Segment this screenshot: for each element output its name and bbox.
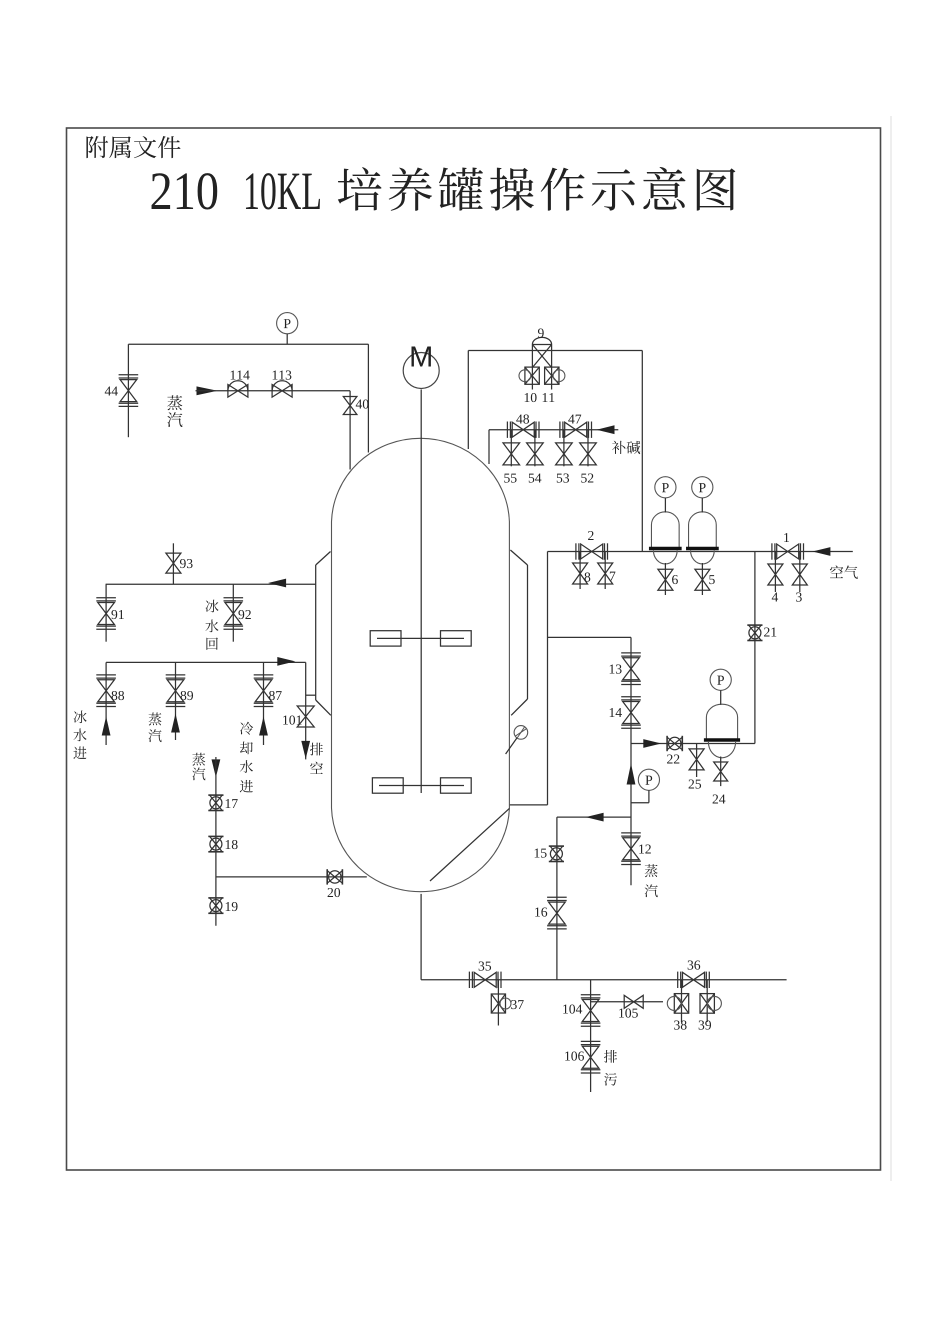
flow arrow: toward valve 15 branch [586, 813, 604, 822]
valve 9 body (cross between risers) [532, 337, 551, 389]
pipe: valve 92 stub [232, 584, 234, 642]
pressure gauge P (air filter F2) [692, 477, 713, 513]
valve 114 [228, 381, 248, 397]
valve 38 [667, 994, 688, 1014]
label 19 [226, 902, 238, 911]
valve 105 [624, 995, 643, 1008]
pipe: tank bottom outlet drop [420, 894, 422, 980]
pipe: sterile air header [548, 551, 853, 553]
label 88 [112, 691, 125, 700]
label 2 [588, 531, 593, 540]
label: 排污 (blow-down) [604, 1050, 617, 1086]
tank T1 10KL culture vessel shell [332, 438, 510, 891]
valve 37 [491, 994, 511, 1013]
flow arrow: steam inlet (top left) [197, 386, 218, 395]
pipe: valve 52 stub [587, 430, 589, 467]
label 93 [180, 559, 193, 568]
valve 40 [343, 397, 357, 415]
pipe: valve 7 stub [604, 552, 606, 590]
valve 3 [792, 564, 807, 585]
label 14 [610, 708, 622, 717]
label: 冰水进 (ice water in) [73, 710, 86, 759]
valve 44 [119, 375, 139, 407]
valve 47 [560, 422, 592, 438]
valve 25 [689, 749, 704, 770]
label 48 [516, 414, 529, 423]
label 9 [538, 328, 544, 337]
pipe: valve 40 drop to tank dome [349, 391, 351, 470]
flow arrow: air inlet [812, 547, 830, 556]
flow arrow: vent down (101) [301, 741, 310, 759]
pressure gauge P (top left) [277, 313, 298, 345]
pipe: valve 93 stub [172, 543, 174, 584]
title text: 210 10KL [152, 173, 320, 209]
pipe: exhaust riser x=754.9 [754, 552, 756, 744]
label 101 [283, 715, 301, 724]
valve 55 [503, 443, 520, 465]
pipe: valve 4 stub [774, 552, 776, 593]
valve 101 [297, 706, 314, 727]
pipe: drain riser x=590.6 [590, 980, 592, 1092]
pipe: steam line with valves 114/113 [196, 390, 351, 392]
pressure gauge P (harvest riser) [631, 769, 660, 803]
label 47 [568, 415, 581, 424]
label: 蒸汽 (steam, top left) [167, 395, 182, 427]
pipe: air header to bottom-side nozzle [510, 804, 548, 806]
valve 36 [678, 972, 710, 988]
cooling jacket right [510, 550, 527, 715]
flow arrow: to sample filter [643, 739, 661, 748]
label 15 [535, 849, 547, 858]
pipe: valve 39 stub [706, 980, 708, 1022]
valve 22 [667, 736, 682, 751]
pipe: vent line drop to air line [641, 351, 643, 552]
valve 5 [695, 569, 710, 590]
valve 53 [556, 443, 573, 465]
label 36 [688, 960, 701, 969]
motor M (agitator drive) [403, 347, 439, 389]
air filter F1 [649, 512, 682, 564]
flow arrow: chilled water return [268, 579, 286, 588]
valve 1 [772, 543, 804, 559]
pipe: valve 6 stub [664, 563, 666, 595]
valve 52 [580, 443, 597, 465]
flow arrow: utility header to jacket [277, 657, 295, 666]
drain dip line inside bottom head [430, 808, 509, 881]
pipe: harvest riser x=631 [630, 637, 632, 885]
title text: 培养罐操作示意图 [338, 167, 736, 211]
impeller upper [370, 631, 471, 646]
label 38 [674, 1020, 686, 1029]
label 11 [543, 393, 555, 402]
pipe: vent line across dome [468, 350, 642, 352]
label: 排空 (vent) [310, 743, 323, 774]
label 4 [772, 593, 778, 602]
label 52 [581, 473, 593, 482]
valve 12 [621, 833, 641, 865]
valve 21 [747, 625, 762, 640]
valve 18 (steam trap) [208, 836, 223, 851]
valve 13 [621, 653, 641, 685]
sample filter F3 [704, 704, 740, 758]
valve 92 [224, 598, 244, 630]
air filter F2 [686, 512, 719, 564]
label: 蒸汽 (steam, trap line) [192, 753, 205, 781]
pipe: valve 88 stub [105, 662, 107, 745]
pipe: valve 53 stub [563, 430, 565, 467]
pipe: valve 24 stub [720, 757, 722, 787]
valve 106 [581, 1041, 601, 1073]
flow arrow: cooling water in [259, 717, 268, 736]
label 44 [105, 387, 118, 396]
flow arrow: steam in (89) [171, 714, 180, 733]
label 53 [557, 473, 569, 482]
pipe: valve 87 stub [263, 662, 265, 745]
pipe: valve 3 stub [799, 552, 801, 593]
label 17 [226, 799, 238, 808]
pressure gauge P (sample filter) [710, 669, 731, 705]
valve 35 [469, 972, 501, 988]
valve 10 [519, 367, 539, 384]
pipe: valve 89 stub [175, 662, 177, 740]
label 7 [610, 572, 616, 581]
pressure gauge P (air filter F1) [655, 477, 676, 513]
label 10 [525, 393, 537, 402]
flow arrow: alkali inlet [597, 425, 615, 434]
pipe: utility inlet header [106, 661, 306, 663]
label 16 [535, 907, 547, 916]
pipe: bottom transfer header [421, 979, 786, 981]
label 1 [784, 533, 789, 542]
label 25 [689, 779, 701, 788]
pipe: air header drop at tank side [547, 552, 549, 805]
pipe: steam cross line to 15 [557, 816, 631, 818]
label 24 [713, 794, 726, 803]
valve 87 [254, 675, 274, 707]
pipe: chilled water return header [106, 583, 316, 585]
label 3 [796, 592, 802, 601]
pipe: valve 8 stub [579, 552, 581, 590]
label 105 [619, 1008, 638, 1017]
label 21 [764, 627, 776, 636]
valve 6 [658, 569, 673, 590]
label 87 [269, 691, 282, 700]
valve 15 [549, 846, 564, 861]
valve 104 [581, 995, 601, 1027]
label 89 [181, 691, 194, 700]
pipe: tee to jacket bottom [306, 694, 316, 696]
pipe: top header from valve 44 to pressure tap corner [128, 343, 368, 345]
pipe: harvest drop from air header tee [548, 636, 632, 638]
pipe: line 20 to tank bottom head [216, 876, 367, 878]
valve 93 [166, 553, 181, 573]
label 35 [479, 961, 491, 970]
valve 91 [96, 598, 116, 630]
pipe: valve 37 stub [497, 980, 499, 1026]
pipe: valve 55 stub [510, 430, 512, 467]
pipe: valve 105 stub [591, 1001, 663, 1003]
valve 39 [700, 994, 721, 1014]
valve 16 [547, 897, 567, 929]
label 106 [565, 1051, 584, 1060]
pipe: valve 91 stub [105, 584, 107, 642]
pipe: top header drop to tank dome [367, 344, 369, 452]
valve 19 (steam trap) [208, 898, 223, 913]
valve 7 [598, 563, 613, 584]
pipe: alkali addition header [489, 429, 618, 431]
valve 14 [621, 697, 641, 729]
label 92 [238, 610, 250, 619]
label: 蒸汽 (steam, valve 89) [148, 713, 161, 743]
valve 17 (steam trap) [208, 795, 223, 810]
pipe: branch riser x=556.9 to bottom line [556, 817, 558, 980]
label 114 [231, 371, 250, 380]
pipe: valve 25 stub [696, 744, 698, 778]
pipe: line to sample filter [631, 743, 755, 745]
impeller lower [372, 778, 471, 793]
pipe: alkali header drop to tank dome [488, 430, 490, 464]
label: document header 附属文件 [86, 136, 180, 158]
label 37 [511, 1000, 524, 1009]
label 12 [639, 844, 651, 853]
label 104 [563, 1004, 582, 1013]
label 113 [273, 370, 292, 379]
pipe: valve 54 stub [534, 430, 536, 467]
valve 48 [507, 422, 539, 438]
label 8 [585, 572, 591, 581]
valve 11 [545, 367, 565, 384]
valve 4 [768, 564, 783, 585]
sight glass / probe on tank wall [506, 726, 528, 754]
label 54 [529, 474, 542, 483]
valve 24 [714, 762, 728, 781]
label 13 [610, 664, 622, 673]
label 39 [699, 1020, 711, 1029]
label 20 [328, 888, 340, 897]
label 6 [672, 575, 678, 584]
valve 20 [327, 869, 342, 884]
label 18 [226, 840, 238, 849]
pipe: valve 5 stub [701, 563, 703, 595]
pipe: valve 44 branch vertical [127, 344, 129, 437]
valve 113 [272, 381, 292, 397]
label 91 [111, 610, 123, 619]
flow arrow: up in harvest riser [627, 764, 636, 785]
valve 89 [166, 675, 186, 707]
flow arrow: steam down into trap line [212, 759, 221, 777]
label: 冷却水进 (cooling water in) [240, 722, 253, 793]
label: 冰水回 (chilled water return) [205, 600, 218, 650]
label 5 [709, 575, 714, 584]
valve 2 [576, 543, 608, 559]
cooling jacket left [316, 552, 331, 716]
label: 蒸汽 (steam, valve 12) [645, 864, 658, 897]
label 22 [667, 754, 679, 763]
pipe: trap line riser x=215.9 [215, 757, 217, 926]
pipe: corner down to vent valve 101 [305, 662, 307, 759]
label 40 [356, 399, 369, 408]
agitator shaft [420, 390, 422, 794]
label: 空气 (air) [830, 565, 858, 578]
pipe: valve 38 stub [681, 980, 683, 1022]
label 55 [504, 474, 516, 483]
pipe: vent line drop to dome left [467, 351, 469, 450]
valve 8 [573, 563, 588, 584]
flow arrow: ice water in [102, 717, 111, 736]
label: 补碱 (alkali make-up) [612, 441, 640, 454]
valve 88 [96, 675, 116, 707]
valve 54 [527, 443, 544, 465]
